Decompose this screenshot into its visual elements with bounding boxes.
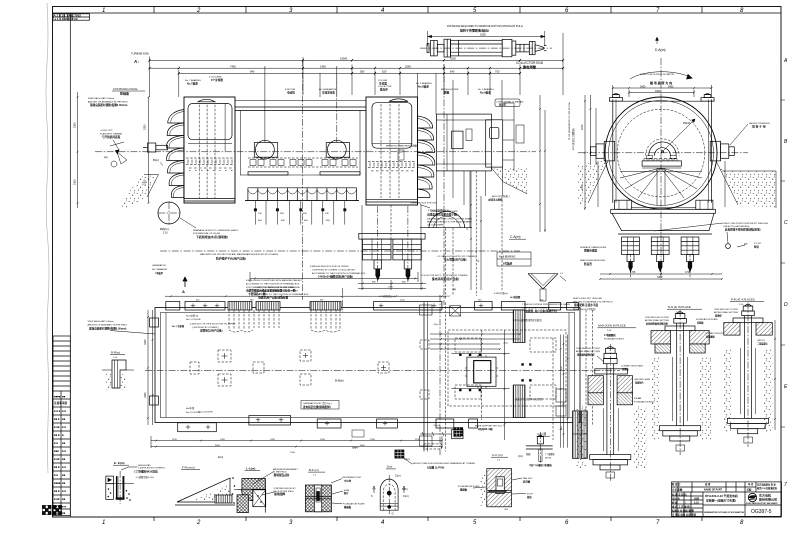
- svg-text:STEP EACH GAP 0.30mm: STEP EACH GAP 0.30mm: [88, 320, 114, 323]
- svg-text:CONNECTION BOLT: CONNECTION BOLT: [705, 333, 727, 335]
- svg-text:No. 7 BEARING: No. 7 BEARING: [185, 79, 201, 82]
- lifting note left: [100, 130, 124, 154]
- svg-text:■ ■: ■ ■: [62, 466, 66, 469]
- svg-text:拔转子所需距离(轴向): 拔转子所需距离(轴向): [460, 28, 489, 33]
- svg-text:■■ ■: ■■ ■: [54, 466, 60, 469]
- svg-text:A↓: A↓: [133, 59, 139, 64]
- svg-text:2360: 2360: [74, 122, 77, 128]
- svg-text:交流发电机: 交流发电机: [322, 91, 335, 95]
- svg-text:P-P( AT 4 PLACES: P-P( AT 4 PLACES: [731, 298, 755, 302]
- right stator block: [366, 97, 418, 205]
- svg-text:DISTANCE REQUIRED TO REMOVE RO: DISTANCE REQUIRED TO REMOVE ROTOR (STRAI…: [447, 24, 523, 28]
- svg-text:■ ■: ■ ■: [54, 442, 58, 445]
- svg-text:7: 7: [784, 482, 787, 488]
- svg-text:■■: ■■: [62, 512, 66, 515]
- generator key square: [451, 354, 531, 391]
- weld note right: [654, 223, 768, 232]
- svg-text:700: 700: [495, 70, 500, 74]
- svg-text:现场配焊,注意水平度: 现场配焊,注意水平度: [574, 303, 598, 307]
- svg-text:L-L(m): L-L(m): [246, 467, 255, 471]
- svg-text:顶 转 子 用: 顶 转 子 用: [752, 125, 766, 129]
- svg-text:+0.402 1.5/7°: +0.402 1.5/7°: [100, 130, 113, 132]
- svg-text:■■: ■■: [62, 418, 66, 421]
- svg-text:1:3.5M: 1:3.5M: [634, 398, 641, 400]
- left strip cell texts: [54, 396, 68, 516]
- plan 4xM labels: [379, 288, 521, 299]
- note line 2-M20 oil pipe: [190, 324, 236, 333]
- M-M left dim chain: [560, 335, 562, 448]
- anchor detail P-P: [724, 298, 773, 448]
- left fan louvres: [166, 110, 183, 198]
- black checkered pad: [454, 428, 463, 436]
- svg-text:D A(m): D A(m): [655, 48, 666, 52]
- right pads column plan: [513, 310, 525, 418]
- svg-text:油管接口(用户自备): 油管接口(用户自备): [200, 329, 223, 333]
- left vertical dim chain: [144, 96, 150, 204]
- collector cabinet: [486, 120, 503, 167]
- left trunnion: [591, 141, 615, 161]
- dashed section boundary right of plan: [586, 310, 593, 425]
- svg-text:股份有限公司: 股份有限公司: [759, 497, 777, 502]
- svg-text:■■ ■: ■■ ■: [54, 490, 60, 493]
- plan left edge pads: [150, 318, 159, 405]
- svg-text:CL OF GENERATOR TO TOP OF PLA: CL OF GENERATOR TO TOP OF PLA: [568, 102, 571, 140]
- labels above machine: [185, 77, 494, 95]
- svg-text:2050: 2050: [144, 179, 147, 185]
- svg-text:现场总装配时调整(每侧0.30mm): 现场总装配时调整(每侧0.30mm): [90, 103, 127, 107]
- svg-text:COUPLING FACE: COUPLING FACE: [113, 87, 137, 91]
- right mid dim chains for details: [774, 320, 776, 430]
- plan left dim chain: [144, 310, 154, 425]
- svg-text:No.9轴承: No.9轴承: [480, 91, 491, 95]
- svg-text:■ ■■: ■ ■■: [54, 512, 60, 515]
- extension lines below side view: [362, 205, 421, 280]
- svg-text:TURBINE END: TURBINE END: [131, 52, 149, 56]
- svg-text:刷握: 刷握: [443, 91, 450, 95]
- svg-text:DIRECTION OF FIELD ROTATION: DIRECTION OF FIELD ROTATION: [640, 73, 674, 76]
- surface transducer label: [580, 246, 607, 266]
- svg-text:年 月: 年 月: [748, 482, 754, 486]
- svg-text:1250: 1250: [320, 439, 326, 441]
- svg-text:电动机: 电动机: [287, 91, 295, 95]
- fold mark right: [784, 482, 787, 488]
- turbine end label: [131, 52, 149, 56]
- center vent blocks row: [248, 158, 358, 167]
- title block logo: [748, 493, 756, 501]
- svg-text:1:10: 1:10: [163, 232, 168, 235]
- C-C detail: [458, 453, 533, 511]
- svg-text:1600: 1600: [144, 339, 147, 345]
- svg-text:与汽轮机同高程: 与汽轮机同高程: [102, 135, 121, 139]
- svg-text:3600: 3600: [360, 445, 366, 447]
- svg-text:1:地脚螺栓: 1:地脚螺栓: [604, 333, 616, 337]
- zone numbers top: [102, 8, 744, 14]
- dims under side-view anchor stacks: [358, 280, 426, 290]
- svg-text:■ ■ ■: ■ ■ ■: [54, 410, 61, 413]
- svg-text:940: 940: [250, 70, 255, 74]
- rotor removal note: [447, 24, 523, 33]
- section line through dome1: [303, 60, 444, 305]
- end view label D: [655, 37, 666, 52]
- right trunnion: [710, 141, 734, 161]
- svg-text:1600: 1600: [655, 90, 661, 93]
- E(m) and I(m) labels: [218, 430, 523, 459]
- svg-text:5600: 5600: [450, 57, 456, 61]
- svg-text:■■ ■: ■■ ■: [54, 434, 60, 437]
- svg-text:记 旧底图: 记 旧底图: [672, 488, 683, 492]
- svg-text:Q-Q 图: Q-Q 图: [537, 432, 546, 436]
- svg-text:AFTER FINAL SETTING: AFTER FINAL SETTING: [714, 311, 738, 314]
- svg-text:改 者: 改 者: [705, 482, 711, 486]
- svg-text:8号轴承: 8号轴承: [503, 262, 513, 266]
- svg-text:GROUND SHIM: GROUND SHIM: [634, 379, 650, 381]
- svg-text:R-R(m): R-R(m): [111, 351, 120, 355]
- svg-text:B向(m): B向(m): [160, 227, 169, 231]
- svg-text:信号灯: 信号灯: [499, 103, 507, 107]
- svg-text:校 核: 校 核: [672, 500, 678, 504]
- svg-text:现场配钻(刮): 现场配钻(刮): [274, 473, 290, 477]
- svg-text:( SUPPLIED BY OTHERS ) COULD B: ( SUPPLIED BY OTHERS ) COULD BE SET: [255, 290, 299, 292]
- svg-text:DONG FANG ELECTRIC MACHINERY: DONG FANG ELECTRIC MACHINERY: [746, 502, 778, 505]
- collector housing: [436, 114, 491, 171]
- svg-text:出线盒(相对位置见端子图): 出线盒(相对位置见端子图): [427, 212, 457, 216]
- svg-text:2-M20 DUT. OIL PIPE SUCK FOR O: 2-M20 DUT. OIL PIPE SUCK FOR OIL PIPING: [190, 324, 236, 326]
- svg-text:中心柱: 中心柱: [344, 479, 352, 483]
- B(m) view label left: [153, 158, 163, 166]
- svg-text:( SUPPLIED BY OTHERS ): ( SUPPLIED BY OTHERS ): [522, 307, 549, 309]
- detail F-F wedge: [175, 466, 235, 506]
- svg-text:1460: 1460: [320, 64, 326, 68]
- small wedge mark left: [104, 152, 127, 167]
- svg-text:基础板: 基础板: [459, 487, 468, 491]
- svg-text:2: 2: [196, 520, 201, 526]
- center section housing: [235, 101, 366, 176]
- drawing number: [751, 509, 772, 515]
- svg-text:DRAINAGE HOLES TO LOWER END SH: DRAINAGE HOLES TO LOWER END SHIELD: [193, 229, 239, 232]
- svg-text:No.8 BEARING: No.8 BEARING: [499, 256, 516, 259]
- svg-text:C A(m): C A(m): [510, 235, 521, 239]
- svg-text:冷却器: 冷却器: [379, 82, 387, 86]
- svg-text:(DESIGN MISTURE CHILD CUT IF I: (DESIGN MISTURE CHILD CUT IF IN SPARE: [427, 217, 473, 220]
- svg-text:A: A: [783, 58, 788, 64]
- radius leader: [661, 119, 695, 153]
- svg-text:N-N (4) IN PLACE: N-N (4) IN PLACE: [668, 305, 691, 309]
- svg-text:GROUT: GROUT: [757, 340, 766, 342]
- svg-text:No. 9 BEARING: No. 9 BEARING: [478, 88, 494, 91]
- svg-text:集电环: 集电环: [379, 87, 388, 91]
- svg-text:THIS WELD AT 4 POINT: THIS WELD AT 4 POINT: [714, 308, 739, 311]
- radial spokes: [620, 168, 702, 205]
- step each note top-left: [88, 97, 128, 107]
- svg-text:3600: 3600: [215, 445, 221, 447]
- dim chain between side and end view: [539, 95, 546, 232]
- rotor removal dashed outline in plan: [448, 330, 566, 406]
- svg-text:No.3 COOLER: No.3 COOLER: [198, 412, 213, 414]
- svg-text:■ ■: ■ ■: [62, 426, 66, 429]
- drainage holes note: [180, 218, 239, 239]
- svg-text:640: 640: [450, 70, 455, 74]
- svg-text:I(m): I(m): [352, 447, 356, 450]
- leader terminal note under side view: [410, 202, 449, 213]
- svg-text:No.1 COOLER: No.1 COOLER: [186, 319, 201, 321]
- svg-text:检查: 检查: [754, 244, 759, 248]
- svg-text:T WHOLE OUTSIDE PIPE SLEEVE FO: T WHOLE OUTSIDE PIPE SLEEVE FOR CABLE: [522, 303, 571, 306]
- right block vent band: [368, 161, 416, 171]
- anchor detail N-N: [651, 305, 711, 455]
- stipple right of collector: [491, 168, 527, 194]
- terminal box note: [427, 210, 473, 226]
- svg-text:1135: 1135: [172, 439, 177, 441]
- svg-text:■■: ■■: [62, 442, 66, 445]
- end view centerlines: [578, 58, 748, 280]
- paper left torn edge: [46, 3, 49, 473]
- left block vent band: [186, 158, 234, 171]
- masonry platform note: [200, 253, 279, 260]
- svg-text:1丁形螺栓M16顶丝: 1丁形螺栓M16顶丝: [134, 469, 158, 473]
- svg-text:■■: ■■: [62, 474, 66, 477]
- svg-text:1725: 1725: [685, 271, 691, 274]
- svg-text:L.P. GAS DUCT(SUPPLY BY OTHERS: L.P. GAS DUCT(SUPPLY BY OTHERS): [437, 255, 476, 258]
- svg-text:3-M30x3/4 BSH. BOX FOR OIL PIP: 3-M30x3/4 BSH. BOX FOR OIL PIPING: [310, 266, 349, 268]
- svg-text:1: 1: [102, 520, 105, 526]
- svg-text:ANGLE PAD: ANGLE PAD: [138, 464, 151, 467]
- rotor removal dim line: [428, 31, 545, 46]
- N-N leader notes: [645, 316, 727, 338]
- right side vertical dims of side view: [467, 171, 482, 296]
- anchor stack left under right block: [359, 233, 425, 280]
- svg-text:C(m): C(m): [395, 473, 401, 477]
- right hatched wall strips: [573, 411, 588, 459]
- svg-text:现场总装配时调整(每侧0.30mm): 现场总装配时调整(每侧0.30mm): [89, 326, 126, 330]
- overall dim under side view: [250, 272, 418, 282]
- svg-text:GENERATOR: GENERATOR: [152, 264, 166, 267]
- far left vertical dim chain: [74, 92, 79, 208]
- concrete stipple left of side view: [122, 175, 159, 211]
- svg-text:2590: 2590: [405, 64, 411, 68]
- detail circle B bottom-left: [158, 202, 180, 235]
- K(m) label lower: [404, 457, 410, 461]
- svg-text:8-M20×45 BOLTS SUPPLIED WITH M: 8-M20×45 BOLTS SUPPLIED WITH MACHINE CAN…: [246, 279, 303, 282]
- svg-text:3-M30x3/4油管丝堵(用户自备): 3-M30x3/4油管丝堵(用户自备): [318, 275, 353, 279]
- outer circle: [605, 97, 717, 209]
- svg-text:■■■■: ■■■■: [54, 482, 61, 485]
- svg-text:■ ■: ■ ■: [62, 450, 66, 453]
- svg-text:1电缆管, 用户自备(现场开孔): 1电缆管, 用户自备(现场开孔): [524, 309, 557, 313]
- detail L-L corner weld: [232, 467, 298, 513]
- svg-text:防音罩: 防音罩: [584, 262, 592, 266]
- svg-text:阶 改 订: 阶 改 订: [672, 482, 681, 486]
- svg-text:1600: 1600: [144, 392, 147, 398]
- svg-text:E- E(m): E- E(m): [114, 461, 125, 465]
- jackup trunnion note: [730, 122, 770, 145]
- title block texts: [671, 482, 778, 516]
- lp gas duct note: [437, 255, 476, 262]
- svg-text:■ ■■: ■ ■■: [54, 498, 60, 501]
- svg-text:K: K: [371, 494, 373, 498]
- plan right leader texts: [433, 318, 543, 401]
- bearing dome 2: [320, 66, 360, 175]
- svg-text:2-M80X2 BS PIPE SLEEVE FOR CAB: 2-M80X2 BS PIPE SLEEVE FOR CABLE: [255, 286, 296, 289]
- detail R-R left wall: [102, 351, 134, 391]
- svg-text:标 审 定 年 月: 标 审 定 年 月: [671, 492, 687, 496]
- dashed drop lines from collector to plan: [446, 196, 503, 300]
- svg-text:MACHINE AT ASSEMBLY: MACHINE AT ASSEMBLY: [273, 468, 299, 471]
- svg-text:NAME OF PART: NAME OF PART: [704, 489, 723, 492]
- detail E-E left: [106, 461, 165, 504]
- svg-text:日期: 日期: [747, 488, 752, 492]
- svg-text:No.7 BEARING: No.7 BEARING: [152, 268, 167, 271]
- grounding bolt mark: [726, 232, 762, 248]
- svg-text:X(m): X(m): [402, 487, 408, 491]
- collector duct note: [421, 275, 468, 281]
- svg-text:PAGE ACCORDING TO THE REQUIREM: PAGE ACCORDING TO THE REQUIREMENT: [427, 220, 473, 223]
- plan bottom pads: [178, 416, 478, 432]
- border zone band top line: [53, 7, 782, 14]
- svg-text:切向键: 切向键: [523, 479, 531, 483]
- right border zone letters: [783, 58, 788, 390]
- bottom long note under side view: [255, 286, 309, 300]
- svg-text:基础板: 基础板: [343, 505, 352, 509]
- svg-text:KEEP EACH GAP 0.30mm: KEEP EACH GAP 0.30mm: [88, 97, 114, 100]
- top corner caps: [609, 93, 714, 101]
- collector end label: [516, 61, 544, 70]
- svg-text:E(m): E(m): [218, 456, 223, 459]
- right border ticks: [781, 100, 785, 427]
- air duct note: [488, 194, 509, 201]
- left shaft stub: [143, 143, 168, 152]
- svg-text:COLLECTOR END: COLLECTOR END: [516, 61, 544, 65]
- svg-text:2460: 2460: [668, 85, 674, 88]
- svg-text:■■: ■■: [62, 498, 66, 501]
- svg-text:WELD THIS POSITION WITHOUT WEL: WELD THIS POSITION WITHOUT WELDING: [724, 223, 769, 225]
- svg-text:D: D: [784, 302, 788, 308]
- svg-text:( SUPPLIED BY OTHERS ) COULD B: ( SUPPLIED BY OTHERS ) COULD BE SET: [312, 269, 356, 271]
- svg-text:项表: 项表: [61, 401, 68, 405]
- svg-text:♦ 1 1 1 2002.7.02: ♦ 1 1 1 2002.7.02: [55, 17, 79, 21]
- overall dimension line top: [150, 33, 564, 119]
- svg-text:No.7轴承: No.7轴承: [187, 82, 198, 86]
- svg-text:No. 8 BEARING: No. 8 BEARING: [416, 82, 432, 85]
- detail B-K: [305, 468, 365, 512]
- svg-text:灭火管路(用户自备): 灭火管路(用户自备): [443, 258, 467, 262]
- svg-text:J(m): J(m): [518, 455, 523, 458]
- svg-text:集电环端: 集电环端: [522, 65, 537, 70]
- svg-text:1725: 1725: [630, 271, 636, 274]
- svg-text:下机架排油(水)孔(现场做): 下机架排油(水)孔(现场做): [196, 235, 228, 239]
- left stator block: [184, 97, 235, 203]
- svg-text:■ ■: ■ ■: [62, 410, 66, 413]
- Q-Q detail: [526, 432, 556, 467]
- black grid pad small: [395, 450, 412, 464]
- plan top pad dims: [196, 300, 544, 302]
- svg-text:■■■■: ■■■■: [54, 396, 61, 399]
- plan interior labels: [172, 314, 506, 450]
- svg-text:注意事: 注意事: [54, 401, 62, 405]
- svg-text:设计 ⊕: 设计 ⊕: [672, 496, 680, 500]
- terminal box side profile: [503, 103, 524, 171]
- svg-text:6个冷却器: 6个冷却器: [211, 78, 223, 82]
- svg-text:↓T(m)3: ↓T(m)3: [433, 424, 441, 427]
- svg-text:G: G: [392, 512, 394, 516]
- svg-text:590: 590: [360, 70, 365, 74]
- svg-text:CONNECTION PLATE: CONNECTION PLATE: [621, 365, 644, 368]
- plan right footprint boundary: [420, 302, 461, 451]
- anchor stacks under pedestal: [622, 237, 640, 271]
- plan centerlines: [145, 288, 620, 455]
- svg-text:■■■: ■■■: [54, 450, 59, 453]
- svg-text:7460: 7460: [230, 64, 236, 68]
- svg-text:2: 2: [196, 8, 201, 14]
- svg-text:■■: ■■: [62, 482, 66, 485]
- rotor pulling device: [420, 39, 552, 57]
- svg-text:GENERATOR OUTLINE OF EXCAVATIO: GENERATOR OUTLINE OF EXCAVATION: [704, 511, 744, 514]
- brush label in right block: [386, 144, 418, 161]
- platform dash line: [160, 250, 520, 252]
- svg-text:□(A): □(A): [452, 288, 457, 291]
- no8 bearing boxed label: [497, 252, 531, 266]
- collector base and scroll arc: [378, 167, 503, 282]
- svg-text:■ ■■: ■ ■■: [54, 458, 60, 461]
- svg-text:2360: 2360: [74, 179, 77, 185]
- svg-text:防护维护平台(用户自备): 防护维护平台(用户自备): [216, 256, 246, 260]
- svg-text:安装图一(基础尺寸布置): 安装图一(基础尺寸布置): [706, 499, 736, 503]
- svg-text:1250: 1250: [370, 439, 376, 441]
- svg-text:■■: ■■: [62, 396, 66, 399]
- svg-text:审 查 工 艺 类 别: 审 查 工 艺 类 别: [672, 504, 690, 508]
- svg-text:测振传感器: 测振传感器: [584, 249, 597, 253]
- svg-text:集电环风道(用户自备): 集电环风道(用户自备): [431, 277, 459, 281]
- svg-text:KEEP LEVEL NOT LESS 4A1: KEEP LEVEL NOT LESS 4A1: [573, 297, 603, 300]
- svg-text:620: 620: [382, 70, 387, 74]
- svg-text:WELDED TO ASSEMBLY IN THE FIEL: WELDED TO ASSEMBLY IN THE FIELD: [573, 300, 613, 303]
- bolt centerlines under end view stacks: [631, 255, 691, 279]
- dim line above plan pads: [165, 295, 445, 297]
- step gap note left of plan: [88, 320, 156, 334]
- svg-text:■■ ■: ■■ ■: [54, 418, 60, 421]
- svg-text:( SUPPLIED BY OTHERS ): ( SUPPLIED BY OTHERS ): [192, 327, 219, 329]
- svg-text:9100: 9100: [480, 33, 486, 37]
- end view frame square: [609, 99, 714, 202]
- svg-text:■ ■: ■ ■: [62, 490, 66, 493]
- dims below end view: [599, 271, 723, 280]
- svg-text:OG397-5: OG397-5: [751, 509, 772, 515]
- svg-text:C-C (m): C-C (m): [492, 453, 503, 457]
- end view top dims: [612, 85, 713, 97]
- svg-text:2240: 2240: [581, 184, 584, 190]
- end view stipple left: [578, 161, 608, 205]
- zone numbers bottom: [102, 520, 744, 526]
- corner stamps bottom-left: [43, 506, 62, 515]
- svg-text:2050: 2050: [144, 124, 147, 130]
- svg-text:2四号B6.-6期: 2四号B6.-6期: [478, 427, 493, 431]
- svg-text:F-F(m×m): F-F(m×m): [182, 466, 195, 470]
- svg-text:FOUNDATION BOLT: FOUNDATION BOLT: [604, 337, 625, 340]
- anchor stack right under right block: [393, 239, 421, 280]
- A arrow bottom of side view: [182, 277, 187, 294]
- svg-text:CONTINUOUS FILLET: CONTINUOUS FILLET: [273, 488, 296, 490]
- light signal box: [495, 99, 524, 107]
- legs below scallops: [254, 201, 346, 225]
- svg-text:ACCORDING TO THE POSITION OF T: ACCORDING TO THE POSITION OF TERMINAL BO…: [255, 293, 309, 296]
- plan bottom dim chains: [151, 436, 443, 454]
- svg-text:发电机定位键(现场配焊): 发电机定位键(现场配焊): [302, 405, 331, 409]
- end view left dim chain: [568, 95, 596, 210]
- svg-text:M/T16: M/T16: [545, 457, 552, 459]
- svg-text:1: 1: [102, 8, 105, 14]
- mid vertical dim chains: [553, 335, 568, 448]
- plan top pads: [166, 302, 579, 311]
- leg dims text: [258, 213, 330, 222]
